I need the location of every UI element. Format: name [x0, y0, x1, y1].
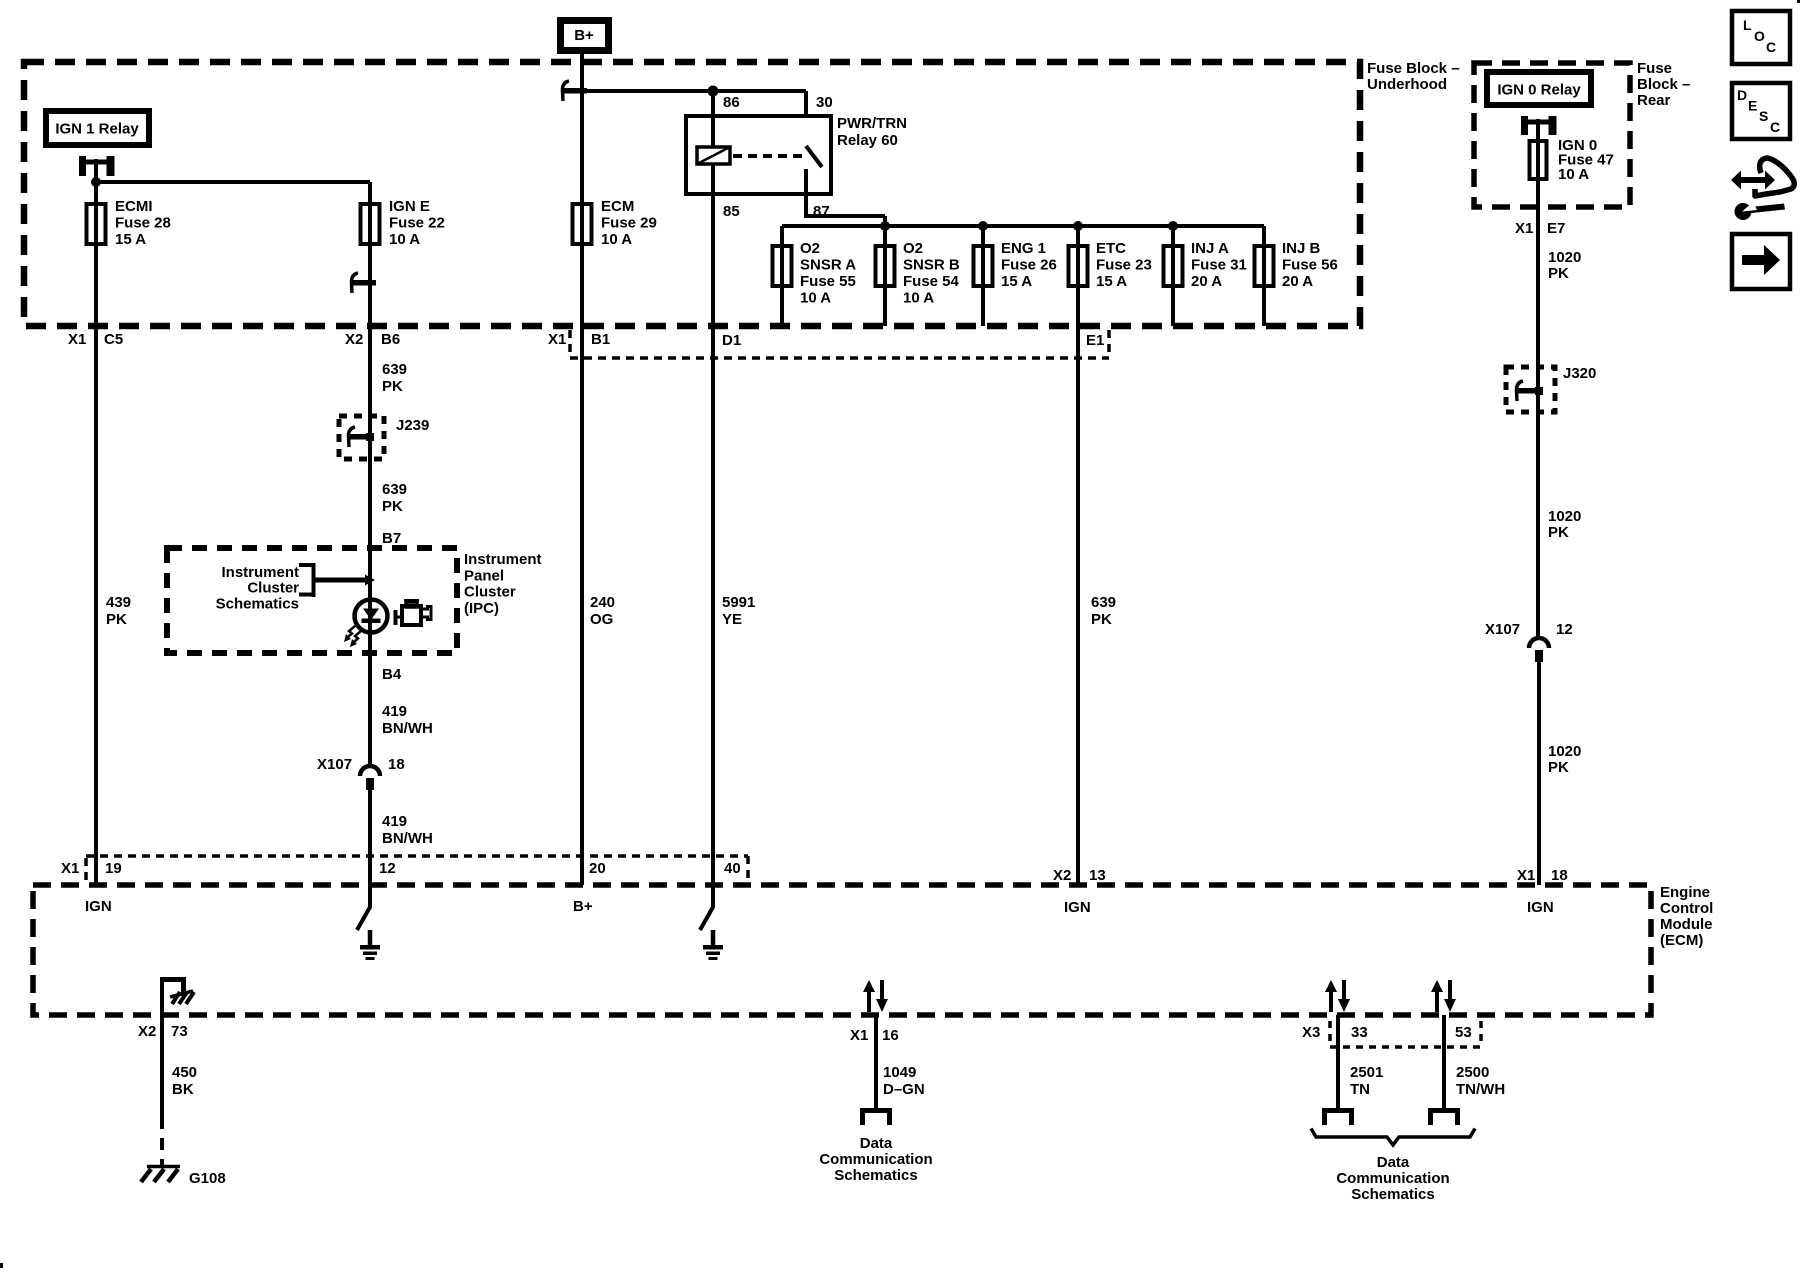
- icon DESC box: [1732, 83, 1790, 139]
- svg-text:PWR/TRN: PWR/TRN: [837, 115, 907, 132]
- svg-text:10 A: 10 A: [903, 290, 934, 307]
- svg-text:X1: X1: [61, 860, 79, 877]
- corner mark bottom left: [0, 1263, 3, 1268]
- ground internal pin 40: [700, 907, 713, 930]
- svg-text:Data: Data: [1377, 1154, 1410, 1171]
- fuse feed bus: [782, 224, 1264, 228]
- data link arrows pin 53: [1435, 989, 1439, 1012]
- junction dots on bus: [880, 221, 890, 231]
- svg-text:TN/WH: TN/WH: [1456, 1081, 1505, 1098]
- svg-text:PK: PK: [1091, 611, 1112, 628]
- svg-text:18: 18: [1551, 867, 1568, 884]
- svg-text:2500: 2500: [1456, 1064, 1489, 1081]
- svg-text:D–GN: D–GN: [883, 1081, 925, 1098]
- svg-text:Fuse: Fuse: [1637, 60, 1672, 77]
- svg-text:Relay 60: Relay 60: [837, 132, 898, 149]
- svg-text:X2: X2: [138, 1023, 156, 1040]
- svg-text:Fuse 26: Fuse 26: [1001, 257, 1057, 274]
- wire 450 BK: [160, 1015, 164, 1117]
- svg-text:1049: 1049: [883, 1064, 916, 1081]
- svg-text:5991: 5991: [722, 594, 755, 611]
- svg-text:ECM: ECM: [601, 198, 634, 215]
- svg-text:33: 33: [1351, 1024, 1368, 1041]
- svg-text:10 A: 10 A: [389, 231, 420, 248]
- node B+ terminal box: [557, 17, 612, 54]
- wire 1020 PK upper: [1536, 181, 1540, 636]
- engine icon: [397, 600, 431, 625]
- fuse block rear boundary: [1474, 63, 1630, 207]
- svg-text:X107: X107: [317, 756, 352, 773]
- connector X107 pin 12: [1529, 638, 1549, 648]
- svg-text:B1: B1: [591, 331, 610, 348]
- fuse INJ B fuse 56: [1262, 226, 1266, 244]
- svg-text:Instrument: Instrument: [464, 551, 542, 568]
- icon forward arrow box: [1732, 234, 1790, 289]
- svg-text:INJ B: INJ B: [1282, 240, 1321, 257]
- wire pin 87 down and to bus: [804, 169, 808, 216]
- svg-text:BK: BK: [172, 1081, 194, 1098]
- wire pin 30: [804, 91, 808, 116]
- svg-text:Communication: Communication: [819, 1151, 932, 1168]
- ground G108: [160, 1160, 164, 1166]
- svg-text:Cluster: Cluster: [247, 580, 299, 597]
- indicator lamp (MIL): [355, 600, 388, 633]
- svg-text:ETC: ETC: [1096, 240, 1126, 257]
- svg-text:O2: O2: [800, 240, 820, 257]
- svg-text:ENG 1: ENG 1: [1001, 240, 1046, 257]
- icon shortcut arrows + wrench: [1740, 177, 1766, 183]
- svg-text:(IPC): (IPC): [464, 600, 499, 617]
- connector hook on B+ wire: [563, 88, 587, 94]
- instrument panel cluster boundary: [167, 548, 457, 653]
- svg-text:12: 12: [1556, 621, 1573, 638]
- wire pin 40 stub: [711, 885, 715, 908]
- ground internal X2 73 hook: [160, 980, 164, 1015]
- svg-text:E: E: [1748, 98, 1757, 114]
- plug to data communication schematics: [860, 1108, 892, 1113]
- splice J320: [1506, 367, 1555, 412]
- svg-text:85: 85: [723, 203, 740, 220]
- wire 5991 YE pin85 to ECM pin 40: [711, 194, 715, 885]
- svg-text:IGN: IGN: [1527, 899, 1554, 916]
- svg-text:PK: PK: [1548, 524, 1569, 541]
- svg-text:IGN: IGN: [1064, 899, 1091, 916]
- svg-text:16: 16: [882, 1027, 899, 1044]
- svg-text:C: C: [1766, 39, 1776, 55]
- svg-text:X1: X1: [1515, 220, 1533, 237]
- svg-text:1020: 1020: [1548, 508, 1581, 525]
- IGN 1 relay output contact symbol: [79, 156, 86, 176]
- svg-text:10 A: 10 A: [1558, 166, 1589, 183]
- svg-text:Schematics: Schematics: [1351, 1186, 1434, 1203]
- svg-text:Engine: Engine: [1660, 884, 1710, 901]
- svg-text:PK: PK: [1548, 759, 1569, 776]
- IGN 0 Relay box: [1484, 69, 1594, 108]
- svg-text:1020: 1020: [1548, 249, 1581, 266]
- svg-text:X1: X1: [1517, 867, 1535, 884]
- svg-text:2501: 2501: [1350, 1064, 1383, 1081]
- svg-text:ECMI: ECMI: [115, 198, 153, 215]
- svg-text:J320: J320: [1563, 365, 1596, 382]
- svg-text:Fuse 22: Fuse 22: [389, 215, 445, 232]
- wire 439 PK (C5): [94, 246, 98, 885]
- svg-text:X1: X1: [548, 331, 566, 348]
- svg-text:Schematics: Schematics: [834, 1167, 917, 1184]
- svg-text:D: D: [1737, 87, 1747, 103]
- svg-text:19: 19: [105, 860, 122, 877]
- svg-text:X2: X2: [345, 331, 363, 348]
- fuse block underhood boundary: [24, 62, 1360, 326]
- relay coil: [711, 116, 715, 147]
- svg-text:Fuse 54: Fuse 54: [903, 273, 960, 290]
- svg-text:Fuse 56: Fuse 56: [1282, 257, 1338, 274]
- svg-text:Panel: Panel: [464, 567, 504, 584]
- svg-text:E1: E1: [1086, 332, 1104, 349]
- svg-text:Data: Data: [860, 1135, 893, 1152]
- brace data communication: [1311, 1129, 1475, 1146]
- svg-text:10 A: 10 A: [800, 290, 831, 307]
- relay switch blade: [806, 146, 822, 167]
- wire bracket to lamp with arrowhead: [313, 578, 366, 583]
- svg-text:INJ A: INJ A: [1191, 240, 1229, 257]
- svg-text:Instrument: Instrument: [221, 564, 299, 581]
- wire 419 BN/WH inside IPC: [368, 632, 372, 766]
- svg-text:12: 12: [379, 860, 396, 877]
- svg-text:18: 18: [388, 756, 405, 773]
- svg-text:450: 450: [172, 1064, 197, 1081]
- svg-text:240: 240: [590, 594, 615, 611]
- relay PWR/TRN Relay 60 box: [686, 116, 831, 194]
- svg-text:30: 30: [816, 94, 833, 111]
- junction node A: [91, 177, 101, 187]
- svg-text:SNSR B: SNSR B: [903, 257, 960, 274]
- svg-text:Fuse 55: Fuse 55: [800, 273, 856, 290]
- svg-text:S: S: [1759, 108, 1768, 124]
- svg-text:13: 13: [1089, 867, 1106, 884]
- svg-text:PK: PK: [382, 378, 403, 395]
- fuse ENG 1 fuse 26: [981, 226, 985, 244]
- fuse IGN 0 Fuse 47: [1530, 141, 1547, 179]
- svg-text:Fuse 28: Fuse 28: [115, 215, 171, 232]
- svg-text:Rear: Rear: [1637, 92, 1671, 109]
- svg-text:B+: B+: [573, 898, 593, 915]
- svg-text:639: 639: [382, 481, 407, 498]
- svg-text:15 A: 15 A: [115, 231, 146, 248]
- svg-text:639: 639: [1091, 594, 1116, 611]
- svg-text:X107: X107: [1485, 621, 1520, 638]
- svg-text:Underhood: Underhood: [1367, 76, 1447, 93]
- svg-text:Block –: Block –: [1637, 76, 1690, 93]
- svg-text:X1: X1: [68, 331, 86, 348]
- svg-text:D1: D1: [722, 332, 741, 349]
- fuse O2 SNSR A fuse 55: [780, 226, 784, 244]
- svg-text:B6: B6: [381, 331, 400, 348]
- wire 419 BN/WH lower: [368, 790, 372, 908]
- connector X3 fine-dotted boundary: [1328, 1021, 1332, 1042]
- wire relay output to junction: [94, 159, 98, 202]
- svg-text:53: 53: [1455, 1024, 1472, 1041]
- data link arrows X1 16: [867, 989, 871, 1012]
- svg-text:B+: B+: [574, 27, 594, 44]
- svg-text:B4: B4: [382, 666, 402, 683]
- wire B+ vertical 582: [580, 54, 584, 202]
- ground internal pin 12: [357, 907, 370, 930]
- svg-text:419: 419: [382, 813, 407, 830]
- svg-text:OG: OG: [590, 611, 613, 628]
- relay contact dashed link: [733, 154, 804, 158]
- connector hook on IGN E wire: [352, 280, 376, 286]
- svg-text:C5: C5: [104, 331, 123, 348]
- svg-text:Cluster: Cluster: [464, 584, 516, 601]
- svg-text:40: 40: [724, 860, 741, 877]
- svg-text:X3: X3: [1302, 1024, 1320, 1041]
- wire pin 86: [711, 91, 715, 116]
- svg-text:PK: PK: [106, 611, 127, 628]
- fuse O2 SNSR B fuse 54: [883, 226, 887, 244]
- svg-text:O: O: [1754, 28, 1765, 44]
- svg-text:10 A: 10 A: [601, 231, 632, 248]
- svg-text:Communication: Communication: [1336, 1170, 1449, 1187]
- connector X1 underhood fine-dotted boundary: [568, 330, 572, 356]
- plug pin 33: [1322, 1108, 1354, 1113]
- svg-text:1020: 1020: [1548, 743, 1581, 760]
- fuse ECM Fuse 29: [573, 204, 592, 244]
- svg-text:O2: O2: [903, 240, 923, 257]
- svg-text:Control: Control: [1660, 900, 1713, 917]
- fuse INJ A fuse 31: [1171, 226, 1175, 244]
- svg-text:IGN E: IGN E: [389, 198, 430, 215]
- lamp light arrows: [346, 626, 355, 639]
- svg-text:Module: Module: [1660, 916, 1713, 933]
- fuse IGN E Fuse 22: [361, 204, 380, 244]
- svg-text:X1: X1: [850, 1027, 868, 1044]
- svg-text:439: 439: [106, 594, 131, 611]
- svg-text:Fuse 23: Fuse 23: [1096, 257, 1152, 274]
- svg-text:C: C: [1770, 119, 1780, 135]
- plug pin 53: [1428, 1108, 1460, 1113]
- bracket instrument cluster schematics: [312, 563, 316, 597]
- svg-text:20 A: 20 A: [1282, 273, 1313, 290]
- ECM module boundary: [33, 885, 1651, 1015]
- data link arrows pin 33: [1329, 989, 1333, 1012]
- svg-text:15 A: 15 A: [1096, 273, 1127, 290]
- svg-text:Fuse 29: Fuse 29: [601, 215, 657, 232]
- svg-text:IGN 1 Relay: IGN 1 Relay: [55, 121, 139, 138]
- svg-text:SNSR A: SNSR A: [800, 257, 856, 274]
- svg-text:B7: B7: [382, 530, 401, 547]
- wire 2501 TN: [1336, 1015, 1340, 1108]
- icon LOC box: [1732, 11, 1790, 64]
- svg-text:J239: J239: [396, 417, 429, 434]
- svg-text:G108: G108: [189, 1170, 226, 1187]
- svg-text:639: 639: [382, 361, 407, 378]
- svg-text:419: 419: [382, 703, 407, 720]
- svg-text:PK: PK: [1548, 265, 1569, 282]
- wire 1049 D-GN: [874, 1015, 878, 1108]
- svg-text:YE: YE: [722, 611, 742, 628]
- svg-text:73: 73: [171, 1023, 188, 1040]
- junction node pin86 branch: [708, 86, 719, 97]
- wire 639 PK below IGN E fuse: [368, 246, 372, 600]
- svg-text:Fuse Block –: Fuse Block –: [1367, 60, 1460, 77]
- corner mark top right: [1797, 0, 1800, 3]
- svg-text:(ECM): (ECM): [1660, 932, 1703, 949]
- svg-text:86: 86: [723, 94, 740, 111]
- svg-text:PK: PK: [382, 498, 403, 515]
- svg-text:Schematics: Schematics: [216, 595, 299, 612]
- fuse ECMI Fuse 28: [87, 204, 106, 244]
- IGN 0 relay output contact symbol: [1521, 116, 1528, 135]
- svg-text:L: L: [1743, 17, 1752, 33]
- fuse ETC fuse 23: [1076, 226, 1080, 244]
- wire 639 PK ETC to ECM pin 13: [1076, 288, 1080, 885]
- svg-text:IGN: IGN: [85, 898, 112, 915]
- svg-text:20 A: 20 A: [1191, 273, 1222, 290]
- splice J239: [339, 416, 384, 459]
- wire junction to IGN E fuse: [96, 180, 370, 184]
- svg-text:15 A: 15 A: [1001, 273, 1032, 290]
- IGN 1 Relay box: [43, 108, 152, 148]
- svg-text:20: 20: [589, 860, 606, 877]
- svg-text:IGN 0 Relay: IGN 0 Relay: [1497, 82, 1581, 99]
- svg-text:BN/WH: BN/WH: [382, 830, 433, 847]
- svg-text:Fuse 31: Fuse 31: [1191, 257, 1247, 274]
- svg-text:TN: TN: [1350, 1081, 1370, 1098]
- svg-text:BN/WH: BN/WH: [382, 720, 433, 737]
- svg-text:X2: X2: [1053, 867, 1071, 884]
- connector X107 pin 18: [360, 766, 380, 776]
- svg-text:E7: E7: [1547, 220, 1565, 237]
- wire B+ horizontal feed to relay: [563, 89, 806, 93]
- wire 2500 TN/WH: [1442, 1015, 1446, 1108]
- connector X1 ECM fine-dotted boundary: [84, 858, 88, 880]
- wire 1020 PK lower: [1537, 662, 1541, 885]
